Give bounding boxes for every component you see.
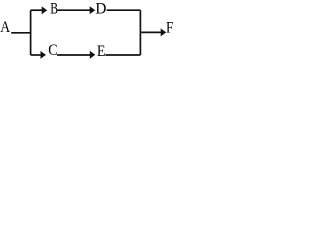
wire arrow shaft to B: [31, 9, 43, 11]
wire arrow shaft B to D: [57, 9, 90, 11]
arrowhead into E: [90, 51, 96, 59]
arrowhead into C: [41, 51, 47, 59]
wire vertical merge line: [139, 10, 141, 55]
wire A to split junction: [11, 32, 30, 34]
wire E to merge corner: [105, 54, 140, 56]
wire arrow shaft C to E: [57, 54, 90, 56]
svg-text:C: C: [48, 42, 57, 59]
svg-text:B: B: [50, 1, 58, 18]
arrowhead into F: [161, 28, 167, 36]
svg-text:E: E: [97, 43, 106, 60]
arrowhead into D: [90, 6, 96, 14]
wire arrow shaft to C: [31, 54, 42, 56]
wire vertical split line: [30, 10, 32, 55]
wire arrow shaft to F: [140, 31, 161, 33]
svg-text:A: A: [0, 19, 10, 36]
arrowhead into B: [42, 6, 48, 14]
svg-text:F: F: [166, 20, 173, 37]
svg-text:D: D: [95, 1, 106, 18]
wire D to merge corner: [107, 9, 141, 11]
